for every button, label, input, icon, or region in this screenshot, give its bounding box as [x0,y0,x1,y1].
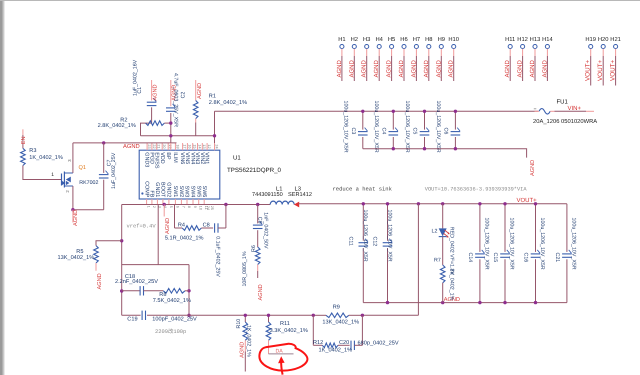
wire VIN+ bus [215,110,539,112]
svg-text:4: 4 [163,206,167,208]
svg-text:AGND: AGND [530,160,536,176]
svg-text:R4: R4 [178,223,185,229]
svg-text:AGND: AGND [197,83,203,99]
inductor L1 7443091150 / L3 SER1412 [270,201,294,204]
svg-text:R6: R6 [251,245,257,252]
svg-text:17: 17 [183,144,187,148]
svg-text:H2: H2 [351,36,358,43]
svg-text:C20: C20 [339,340,349,346]
svg-text:100u_1206_10V_X5R: 100u_1206_10V_X5R [435,101,441,153]
svg-text:18: 18 [175,144,179,148]
annotation red arrow [281,360,282,375]
fuse FU1 [535,110,540,112]
svg-text:C12: C12 [372,237,378,247]
junction dots output bank bottom [386,301,389,304]
svg-text:AGND: AGND [448,59,455,77]
junction dots input bank [361,110,364,113]
svg-text:22: 22 [152,144,156,148]
svg-text:25: 25 [210,206,214,210]
svg-text:AGND: AGND [336,59,343,77]
wire output AGND bus [363,302,567,304]
capacitor C19 100pF_0402_25V [141,311,143,320]
capacitor C9 1nF_0402_50V [257,205,259,224]
svg-text:VOUT+: VOUT+ [597,60,604,81]
resistor R9 13K_0402_1% [326,313,349,318]
svg-text:C9: C9 [257,217,263,224]
svg-text:100u_1206_10V_X5R: 100u_1206_10V_X5R [404,101,410,153]
svg-text:20: 20 [162,144,166,148]
svg-text:R1: R1 [209,94,216,100]
svg-text:AGND: AGND [165,218,171,234]
svg-text:R7: R7 [434,257,441,263]
svg-text:9: 9 [193,206,197,208]
capacitor C14 100u_1206_10V_X5R [479,204,481,252]
svg-text:10: 10 [199,206,203,210]
svg-text:SW1: SW1 [172,186,178,198]
svg-text:H10: H10 [448,36,459,43]
svg-text:AGND: AGND [423,59,430,77]
svg-text:AGND: AGND [153,84,159,100]
wire COMP branch [157,205,159,265]
svg-text:0.1uF_0402_25V: 0.1uF_0402_25V [215,236,221,277]
svg-text:100u_1206_10V_X5R: 100u_1206_10V_X5R [483,218,489,270]
LED L2 RED_0402 VF=1.8V [442,204,444,229]
svg-text:AGND: AGND [123,143,140,150]
resistor R6 10R_0805_1% [255,247,260,265]
wire R3 to Q1 gate [23,166,62,180]
svg-text:AGND: AGND [97,273,103,289]
svg-text:1K_0402_1%: 1K_0402_1% [246,325,252,357]
svg-text:AGND: AGND [348,59,355,77]
capacitor C15 100u_1206_10V_X5R [504,204,506,252]
svg-text:680p_0402_25V: 680p_0402_25V [358,340,399,346]
wire AGND rail above U1 (from Q1 drain) [73,142,177,144]
capacitor C4 100u_1206_10V_X5R [392,111,394,129]
svg-text:8: 8 [187,206,191,208]
wire VOUT+ bus [299,203,567,205]
svg-text:R11: R11 [280,321,290,327]
svg-text:SER1412: SER1412 [288,192,312,198]
svg-text:2: 2 [152,206,156,208]
capacitor C18 2.2nF_0402_25V [122,290,141,292]
svg-text:23: 23 [147,144,151,148]
svg-text:100u_1206_10V_X5R: 100u_1206_10V_X5R [342,101,348,153]
svg-text:SW5: SW5 [195,186,201,198]
net stub DA [269,353,294,355]
capacitor C2 4.7uF_0603_25V_X5R [170,80,172,106]
svg-text:AGND: AGND [361,59,368,77]
wire VOUT sense column [417,204,419,315]
svg-text:7.5K_0402_1%: 7.5K_0402_1% [153,298,191,304]
svg-text:100u_1206_10V_X5R: 100u_1206_10V_X5R [509,218,515,270]
wire Q1 drain [72,143,74,173]
svg-text:VIN+: VIN+ [568,105,582,112]
resistor R8 7.5K_0402_1% [144,290,164,292]
resistor R2 2.8K_0402_1% [146,121,165,126]
svg-text:Q1: Q1 [79,165,86,171]
svg-text:H12: H12 [517,36,528,43]
capacitor C21 100u_1206_10V_X5R [566,204,568,252]
U1 top pin stubs [146,143,148,150]
svg-text:C21: C21 [554,253,560,263]
svg-text:BOOT: BOOT [160,182,166,198]
svg-text:16: 16 [187,144,191,148]
svg-text:6: 6 [175,206,179,208]
svg-text:AGND: AGND [373,59,380,77]
svg-text:FB: FB [149,190,155,197]
svg-text:AGND: AGND [517,59,524,77]
svg-text:H9: H9 [438,36,445,43]
svg-text:AGND: AGND [240,342,246,358]
resistor R7 2K_0402_1% [442,237,444,265]
resistor R1 2.8K_0402_1% [195,80,197,101]
svg-text:C16: C16 [523,253,529,263]
svg-text:H6: H6 [400,36,407,43]
svg-text:DA: DA [276,348,284,354]
wire VDD/BP rail above U1 [141,135,216,137]
resistor R5 13K_0402_1% [96,241,122,246]
svg-text:C2: C2 [180,92,186,99]
svg-text:SW3: SW3 [184,186,190,198]
svg-text:vref=0.4V: vref=0.4V [127,224,157,230]
svg-text:TPS56221DQPR_0: TPS56221DQPR_0 [227,167,282,174]
svg-text:VOUT+: VOUT+ [610,60,617,81]
svg-text:R12: R12 [313,340,323,346]
svg-text:C19: C19 [127,317,137,323]
svg-text:AGND: AGND [410,59,417,77]
svg-text:R3: R3 [29,148,36,154]
transistor Q1 RK7002 [61,174,63,186]
wire Q1 source to AGND [72,186,74,210]
top window border [0,0,640,1]
svg-text:H21: H21 [610,36,621,43]
svg-text:100u_1206_10V_X5R: 100u_1206_10V_X5R [570,218,576,270]
resistor R12 1K_0402_1% + capacitor C20 680p_0402_25V [312,315,314,345]
svg-text:1K_0402_1%: 1K_0402_1% [29,155,63,161]
svg-text:AGND: AGND [398,59,405,77]
svg-text:2.8K_0402_1%: 2.8K_0402_1% [98,123,136,129]
svg-text:4.7uF_0603_25V_X5R: 4.7uF_0603_25V_X5R [173,73,179,127]
svg-text:L2: L2 [432,229,438,235]
svg-text:COMP: COMP [143,181,149,198]
svg-text:SW4: SW4 [190,186,196,198]
svg-text:C11: C11 [347,237,353,246]
svg-text:3.3K_0402_1%: 3.3K_0402_1% [270,328,308,334]
svg-text:H1: H1 [338,37,345,43]
capacitor C3 100u_1206_10V_X5R [362,111,364,129]
wire input AGND bus [363,149,527,158]
wire COMP/FB left rail [121,205,123,316]
svg-text:H3: H3 [363,36,370,43]
svg-text:VIN1: VIN1 [204,152,210,164]
svg-text:H20: H20 [598,36,609,43]
svg-text:C14: C14 [467,253,473,263]
svg-text:14: 14 [197,144,201,148]
svg-text:13K_0402_1%: 13K_0402_1% [58,255,95,261]
svg-text:U1: U1 [233,155,241,162]
svg-text:2209改100p: 2209改100p [155,328,186,335]
svg-text:AGND: AGND [386,59,393,77]
capacitor C6 100u_1206_10V_X5R [454,111,456,129]
svg-text:1uF_0402_16V: 1uF_0402_16V [132,59,138,96]
svg-text:ILIM: ILIM [172,152,178,163]
svg-text:1nF_0402_50V: 1nF_0402_50V [263,212,269,249]
svg-text:VIN5: VIN5 [184,152,190,164]
svg-text:100pF_0402_25V: 100pF_0402_25V [152,317,197,323]
capacitor C5 100u_1206_10V_X5R [424,111,426,129]
wire VIN column into U1 [214,111,216,143]
svg-text:H13: H13 [530,36,541,43]
svg-text:C3: C3 [350,128,356,135]
svg-text:GND2: GND2 [166,182,172,197]
svg-text:100u_1206_10V_X5R: 100u_1206_10V_X5R [362,210,368,262]
svg-text:20A_1206 0501020WRA: 20A_1206 0501020WRA [533,118,597,125]
resistor R11 3.3K_0402_1% [268,315,270,322]
svg-text:100u_1206_10V_X5R: 100u_1206_10V_X5R [373,101,379,153]
svg-text:VOUT=10.76363636-3.939393939*V: VOUT=10.76363636-3.939393939*VIA [425,187,528,193]
svg-text:VDD: VDD [159,152,165,163]
svg-text:19: 19 [168,144,172,148]
svg-text:24: 24 [206,206,210,210]
svg-text:AGND: AGND [258,284,264,300]
svg-text:EN: EN [21,136,27,144]
svg-text:R5: R5 [76,249,83,255]
svg-text:1: 1 [51,172,54,178]
svg-text:H8: H8 [425,36,432,43]
svg-text:C6: C6 [442,128,448,135]
capacitor C12 100u_1206_10V_X5R [387,204,389,241]
capacitor C16 100u_1206_10V_X5R [535,204,537,252]
svg-text:2K_0402_1%: 2K_0402_1% [449,269,455,301]
svg-text:7: 7 [181,206,185,208]
svg-text:2.2nF_0402_25V: 2.2nF_0402_25V [115,279,158,285]
svg-text:AGND: AGND [73,210,79,226]
svg-text:reduce a heat sink: reduce a heat sink [333,186,393,193]
svg-text:GND1: GND1 [154,182,160,197]
svg-text:H4: H4 [375,37,383,43]
svg-text:BP: BP [165,152,171,160]
capacitor C7 1uF_0402_25V [103,143,105,173]
op-amp/regulator U1 TPS56221DQPR [139,150,220,199]
svg-text:VOUT+: VOUT+ [585,60,592,81]
svg-text:7443091150: 7443091150 [252,192,283,198]
svg-text:C4: C4 [380,128,386,135]
svg-text:2.8K_0402_1%: 2.8K_0402_1% [209,100,247,106]
left window border [0,0,3,375]
svg-text:H14: H14 [542,37,553,43]
svg-text:100u_1206_10V_X5R: 100u_1206_10V_X5R [386,210,392,262]
net stub AGND below U1 [163,205,165,217]
svg-text:AGND: AGND [541,59,548,77]
resistor R10 1K_0402_1% [244,315,246,322]
svg-text:21: 21 [157,144,161,148]
junction dots output bank top [362,202,365,205]
svg-text:C8: C8 [203,223,210,229]
svg-text:EN/SS: EN/SS [153,152,159,169]
svg-text:C5: C5 [412,128,418,135]
svg-text:SW2: SW2 [178,186,184,198]
U1 bottom pin stubs [146,199,148,205]
svg-text:AGND: AGND [435,59,442,77]
svg-text:12: 12 [207,144,211,148]
svg-text:H7: H7 [413,37,420,43]
svg-text:C15: C15 [492,253,498,263]
svg-text:1K_0402_1%: 1K_0402_1% [319,348,353,354]
resistor R4 5.1R_0402_1% [174,205,176,229]
net stub EN [22,129,24,135]
svg-text:RK7002: RK7002 [79,180,98,186]
wire SW node to L1 [122,204,271,206]
svg-text:15: 15 [193,144,197,148]
svg-text:1: 1 [147,206,151,208]
svg-text:100u_1206_10V_X5R: 100u_1206_10V_X5R [539,218,545,270]
capacitor C11 100u_1206_10V_X5R [362,204,364,241]
svg-text:H11: H11 [505,37,515,43]
svg-text:13K_0402_1%: 13K_0402_1% [322,319,359,325]
wire FB bus [122,314,141,316]
svg-text:H19: H19 [585,36,596,43]
svg-text:1uF_0402_25V: 1uF_0402_25V [111,152,117,189]
svg-text:SW6: SW6 [201,186,207,198]
svg-text:H5: H5 [388,37,395,43]
svg-text:R10: R10 [236,319,242,329]
svg-text:5: 5 [169,206,173,208]
resistor R3 1K_0402_1% [21,148,26,165]
annotation red circle around DA [259,344,307,371]
capacitor C1 1uF_0402_16V [151,80,153,101]
svg-text:13: 13 [202,144,206,148]
svg-text:AGND: AGND [504,59,511,77]
capacitor C8 0.1uF_0402_25V [214,223,216,232]
svg-text:R9: R9 [333,305,340,311]
svg-text:FU1: FU1 [557,99,569,106]
svg-text:AGND: AGND [529,59,536,77]
svg-text:10R_0805_1%: 10R_0805_1% [242,251,248,286]
svg-text:5.1R_0402_1%: 5.1R_0402_1% [165,236,204,242]
